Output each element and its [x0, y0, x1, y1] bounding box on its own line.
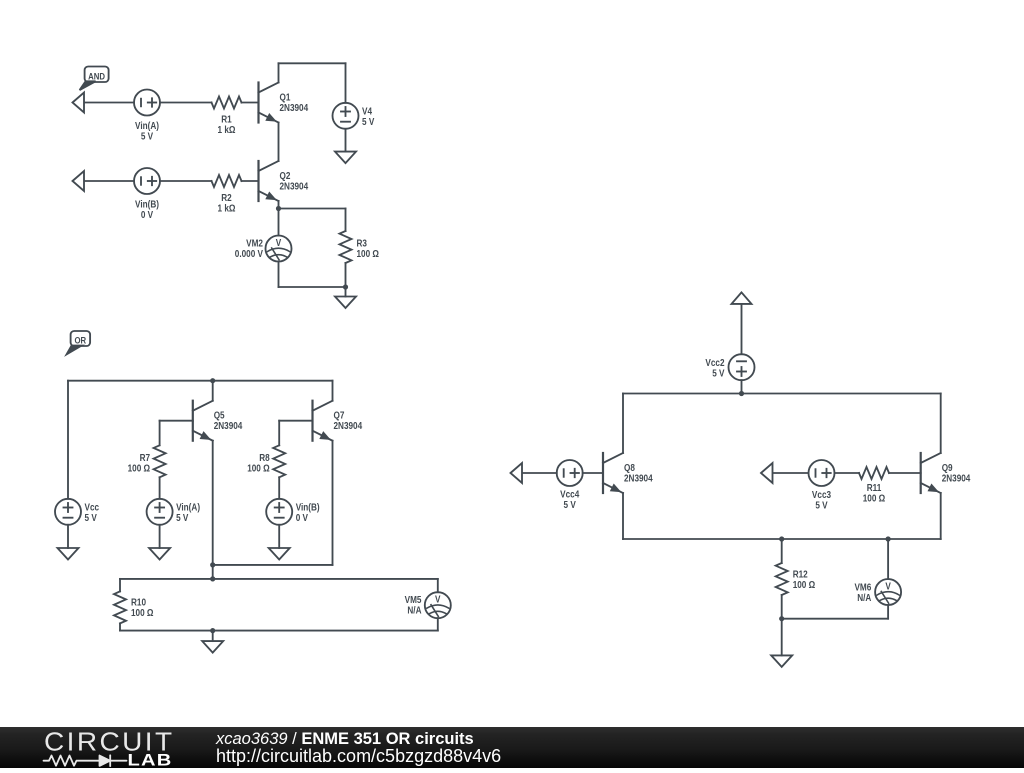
wire VM2 bottom [278, 262, 280, 288]
voltage source Vcc4 5V [557, 460, 583, 510]
wire [160, 102, 212, 104]
wire Q5 emitter down [212, 441, 214, 565]
node R3 bottom junction [343, 284, 348, 289]
resistor R8 100 [247, 445, 285, 477]
node ground junction [210, 628, 215, 633]
svg-text:5 V: 5 V [815, 500, 828, 511]
svg-text:2N3904: 2N3904 [214, 420, 243, 431]
svg-text:100 Ω: 100 Ω [131, 607, 153, 618]
wire R7 top lead [159, 421, 161, 446]
wire terminal to Vcc2 [741, 304, 743, 354]
svg-text:Q2: Q2 [280, 170, 291, 181]
svg-text:R7: R7 [140, 452, 150, 463]
svg-text:0.000 V: 0.000 V [235, 248, 264, 259]
voltage source Vcc2 5V [705, 354, 754, 380]
svg-text:R12: R12 [793, 569, 808, 580]
voltmeter VM2 [235, 236, 292, 262]
voltage source Vin(A) 5V [134, 90, 160, 142]
net flag AND [80, 67, 109, 91]
wire Q7 collector [332, 381, 334, 401]
svg-text:LAB: LAB [128, 752, 173, 769]
svg-text:5 V: 5 V [362, 116, 375, 127]
svg-text:R3: R3 [357, 238, 367, 249]
svg-text:Vin(A): Vin(A) [135, 120, 159, 131]
output terminal top [732, 292, 752, 304]
svg-text:Q7: Q7 [334, 410, 345, 421]
wire Q8 collector up [622, 394, 624, 454]
wire VM6 bottom lead [887, 605, 889, 619]
svg-text:Vin(B): Vin(B) [296, 502, 320, 513]
wire Q1 collector up [278, 63, 280, 82]
svg-text:100 Ω: 100 Ω [863, 493, 885, 504]
wire Vin(B) bottom lead [278, 525, 280, 548]
svg-text:V: V [276, 237, 282, 248]
wire top rail [623, 393, 941, 395]
wire terminal to Vcc3 [773, 472, 809, 474]
wire R3 bottom lead [345, 263, 347, 287]
resistor R10 100 [114, 591, 153, 623]
wire Q9 collector up [940, 394, 942, 454]
svg-text:0 V: 0 V [296, 512, 309, 523]
svg-text:5 V: 5 V [564, 499, 577, 510]
node Vcc2 rail junction [739, 391, 744, 396]
transistor Q1 2N3904 [259, 83, 309, 123]
wire Vin(A) bottom lead [159, 525, 161, 548]
node VM6 top junction [886, 536, 891, 541]
svg-text:Q5: Q5 [214, 410, 225, 421]
transistor Q5 2N3904 [193, 401, 243, 441]
wire V4 bottom lead [345, 129, 347, 152]
svg-text:2N3904: 2N3904 [334, 420, 363, 431]
voltage source Vin(B) 0V [134, 168, 160, 220]
svg-text:V: V [435, 594, 441, 605]
svg-text:1 kΩ: 1 kΩ [218, 124, 236, 135]
wire Q7 base [279, 420, 312, 422]
wire OR top rail [68, 380, 333, 382]
wire Q1 emitter to Q2 collector [278, 123, 280, 162]
svg-text:Vcc3: Vcc3 [812, 489, 831, 500]
wire V4 top lead [345, 63, 347, 103]
wire Q8 emitter down [622, 493, 624, 539]
wire R7 bottom lead [159, 477, 161, 499]
terminal Vcc4 [511, 463, 523, 483]
wire to OR ground [212, 631, 214, 642]
voltage source Vcc3 5V [809, 460, 835, 511]
wire Q2 emitter down [278, 201, 280, 209]
CircuitLab logo resistor-diode glyph [44, 755, 127, 766]
ground under OR loop [202, 641, 223, 653]
svg-text:http://circuitlab.com/c5bzgzd8: http://circuitlab.com/c5bzgzd88v4v6 [216, 746, 501, 766]
ground under Vin(A) [149, 548, 170, 560]
svg-text:AND: AND [88, 71, 105, 82]
voltmeter VM5 [405, 592, 451, 618]
svg-text:5 V: 5 V [712, 368, 725, 379]
svg-text:Vin(A): Vin(A) [176, 502, 200, 513]
resistor R1 1k [212, 97, 242, 135]
wire R8 top lead [278, 421, 280, 446]
wire bottom rail [623, 538, 941, 540]
svg-text:Vcc2: Vcc2 [705, 357, 724, 368]
wire to right ground [781, 619, 783, 656]
node emitter bus junction [210, 562, 215, 567]
svg-text:V4: V4 [362, 106, 373, 117]
wire [242, 180, 259, 182]
net flag OR [67, 331, 91, 354]
wire [160, 180, 212, 182]
svg-text:Q1: Q1 [280, 92, 291, 103]
svg-text:Vcc: Vcc [85, 502, 100, 513]
wire R12 top lead [781, 539, 783, 563]
transistor Q2 2N3904 [259, 161, 309, 201]
svg-text:100 Ω: 100 Ω [357, 248, 379, 259]
wire Vcc bottom lead [67, 525, 69, 548]
svg-text:VM2: VM2 [246, 238, 263, 249]
wire [242, 102, 259, 104]
transistor Q9 2N3904 [921, 453, 971, 493]
svg-text:100 Ω: 100 Ω [247, 463, 269, 474]
wire to R3 top [279, 208, 346, 210]
resistor R11 100 [859, 467, 889, 504]
ground under Vin(B) [269, 548, 290, 560]
ground under Vcc [58, 548, 79, 560]
ground under V4 [335, 152, 356, 164]
transistor Q8 2N3904 [603, 453, 653, 493]
footer bar [0, 727, 1024, 768]
wire VM5 top lead [437, 579, 439, 592]
svg-text:N/A: N/A [407, 605, 421, 616]
wire top to V4 [279, 62, 346, 64]
terminal Vcc3 [761, 463, 773, 483]
wire emitter bus [213, 564, 333, 566]
footer title text [215, 730, 474, 748]
svg-text:VM5: VM5 [405, 594, 422, 605]
wire to ground [345, 287, 347, 297]
resistor R3 100 [340, 231, 379, 263]
wire bottom to R3 [279, 286, 346, 288]
wire Q5 base [160, 420, 193, 422]
svg-text:Q8: Q8 [624, 462, 635, 473]
voltage source V4 5V [333, 103, 376, 129]
wire R11 to Q9 base [889, 472, 921, 474]
CircuitLab logo wordmark LAB [128, 752, 173, 770]
svg-text:2N3904: 2N3904 [942, 473, 971, 484]
node output loop junction [210, 576, 215, 581]
node Q2 emitter junction [276, 206, 281, 211]
svg-text:2N3904: 2N3904 [624, 473, 653, 484]
wire R12 to VM6 bottom [782, 618, 888, 620]
svg-text:5 V: 5 V [176, 512, 189, 523]
svg-text:2N3904: 2N3904 [280, 181, 309, 192]
svg-text:0 V: 0 V [141, 209, 154, 220]
wire R10 bottom lead [119, 623, 121, 630]
wire VM6 top lead [887, 539, 889, 579]
ground under R12 [771, 655, 792, 667]
wire VM5 bottom lead [437, 618, 439, 630]
wire [85, 180, 135, 182]
svg-text:V: V [885, 581, 891, 592]
wire to VM2 top [278, 209, 280, 236]
footer url text [216, 746, 501, 766]
input terminal A [73, 93, 85, 113]
node R12 top junction [779, 536, 784, 541]
resistor R12 100 [776, 563, 815, 595]
svg-text:R10: R10 [131, 597, 146, 608]
svg-text:R1: R1 [221, 114, 231, 125]
svg-text:1 kΩ: 1 kΩ [218, 203, 236, 214]
wire terminal to Vcc4 [523, 472, 557, 474]
wire to output loop [212, 565, 214, 579]
wire R12 bottom lead [781, 595, 783, 619]
wire [85, 102, 135, 104]
svg-text:5 V: 5 V [85, 512, 98, 523]
ground under R3 [335, 297, 356, 309]
wire Q5 collector [212, 381, 214, 401]
wire Vcc3 to R11 [835, 472, 860, 474]
voltage source Vin(A) OR 5V [147, 499, 200, 525]
svg-text:100 Ω: 100 Ω [793, 579, 815, 590]
wire R10 top lead [119, 579, 121, 592]
svg-text:N/A: N/A [857, 592, 871, 603]
node R12 bottom junction [779, 616, 784, 621]
resistor R2 1k [212, 175, 242, 213]
svg-text:Q9: Q9 [942, 462, 953, 473]
voltmeter VM6 [854, 579, 901, 605]
svg-text:Vin(B): Vin(B) [135, 199, 159, 210]
CircuitLab logo wordmark CIRCUIT [44, 729, 175, 757]
node top rail junction [210, 378, 215, 383]
svg-text:5 V: 5 V [141, 131, 154, 142]
wire Vcc2 to rail [741, 380, 743, 393]
wire Vcc top lead [67, 381, 69, 499]
svg-text:R2: R2 [221, 192, 231, 203]
transistor Q7 2N3904 [313, 401, 363, 441]
svg-text:xcao3639 / ENME 351 OR circuit: xcao3639 / ENME 351 OR circuits [215, 730, 474, 748]
wire loop bottom [120, 630, 438, 632]
wire Q8 base [583, 472, 603, 474]
svg-text:R8: R8 [259, 452, 269, 463]
voltage source Vin(B) OR 0V [266, 499, 319, 525]
resistor R7 100 [128, 445, 166, 477]
svg-text:2N3904: 2N3904 [280, 102, 309, 113]
input terminal B [73, 171, 85, 191]
svg-text:VM6: VM6 [854, 582, 871, 593]
svg-text:100 Ω: 100 Ω [128, 463, 150, 474]
wire Q7 emitter down [332, 441, 334, 565]
wire loop top [120, 578, 438, 580]
svg-text:OR: OR [75, 335, 87, 346]
wire Q9 emitter down [940, 493, 942, 539]
wire R3 top lead [345, 209, 347, 232]
svg-text:R11: R11 [867, 482, 882, 493]
wire R8 bottom lead [278, 477, 280, 499]
voltage source Vcc 5V [55, 499, 99, 525]
svg-text:Vcc4: Vcc4 [560, 489, 580, 500]
